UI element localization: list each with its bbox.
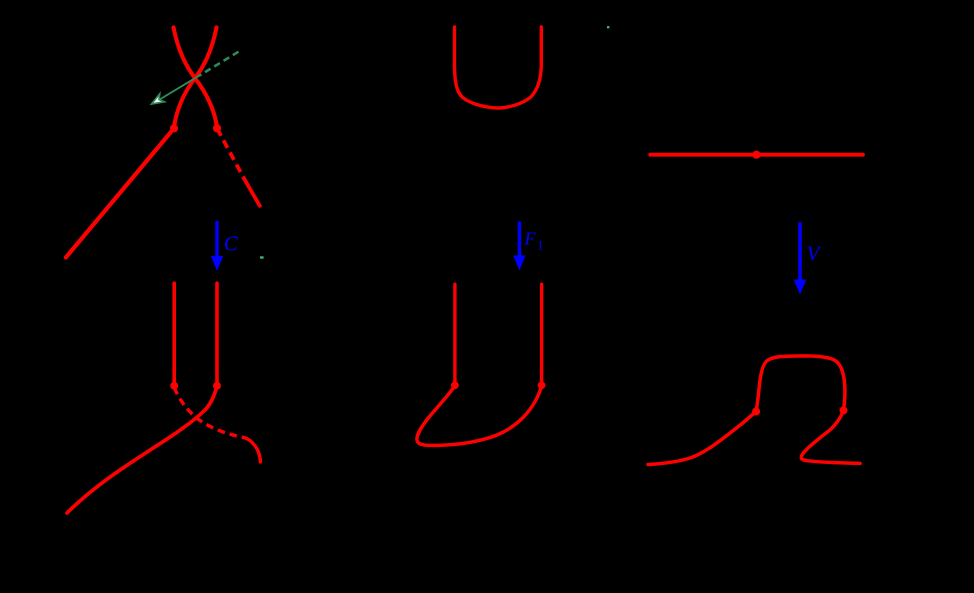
bottom-left: left vertical bbox=[172, 283, 176, 384]
stray green dot 2 bbox=[607, 26, 609, 28]
vertex dot right (top figure) bbox=[213, 124, 221, 132]
bottom-left: big sweeping solid curve from right dot bbox=[67, 386, 217, 513]
green perturbation arrow: dashed part bbox=[199, 52, 239, 76]
svg-text:F: F bbox=[524, 229, 537, 249]
middle-bottom: left dot bbox=[451, 381, 459, 389]
right horizontal line bbox=[650, 153, 863, 157]
green arrowhead (open) bbox=[152, 94, 165, 104]
svg-text:C: C bbox=[224, 232, 239, 256]
middle-bottom: right dot bbox=[538, 381, 546, 389]
blue arrow F1 bbox=[518, 222, 521, 257]
right-bottom right dot bbox=[840, 406, 848, 414]
middle-bottom: left vertical bbox=[453, 284, 456, 383]
right-bottom table curve bbox=[648, 356, 860, 465]
left cusp branch A (top-left to right vertex) bbox=[174, 28, 218, 128]
green perturbation arrow: solid part bbox=[160, 76, 200, 100]
blue arrow C bbox=[215, 221, 218, 257]
vertex dot left (top figure) bbox=[170, 124, 178, 132]
bottom-left: left dot bbox=[170, 382, 178, 390]
solid end of dashed line bbox=[244, 179, 259, 206]
svg-text:1: 1 bbox=[537, 238, 544, 253]
bottom-left: right dot bbox=[213, 382, 221, 390]
solid line from left vertex bbox=[66, 128, 174, 257]
right-bottom left dot bbox=[752, 408, 760, 416]
bottom-left: solid tail of dashed curve bbox=[244, 438, 261, 462]
middle-bottom: hanging loop bbox=[417, 385, 542, 445]
dashed line from right vertex bbox=[217, 128, 244, 179]
stray green tick 1 bbox=[260, 256, 264, 258]
left cusp branch B (top-right to left vertex) bbox=[174, 28, 217, 128]
bottom-left: dashed curve from left dot bbox=[174, 388, 243, 438]
right line dot bbox=[752, 151, 760, 159]
middle-bottom: right vertical bbox=[540, 284, 543, 383]
middle U curve bbox=[455, 27, 542, 108]
bottom-left: right vertical bbox=[215, 283, 219, 384]
svg-text:V: V bbox=[807, 241, 822, 265]
blue arrow V bbox=[798, 222, 802, 280]
